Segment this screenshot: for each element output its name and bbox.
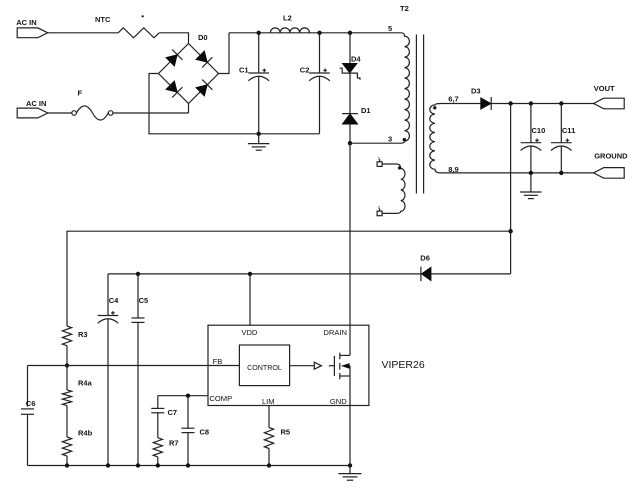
control to gate arrow	[290, 365, 315, 367]
bridge rectifier D0 diamond	[159, 44, 219, 104]
capacitor C1 (bulk, polarized)	[258, 33, 260, 73]
svg-text:D4: D4	[351, 55, 361, 64]
svg-text:D1: D1	[361, 106, 371, 115]
svg-text:3: 3	[388, 134, 392, 143]
TVS diode D4	[342, 63, 357, 73]
junction dot C2 top	[317, 31, 321, 35]
diode D6	[420, 267, 422, 281]
junction dot FB divider node	[65, 363, 69, 367]
AC IN connector (line 2)	[17, 108, 48, 118]
svg-text:R3: R3	[78, 330, 88, 339]
wire clamp branch upper	[349, 33, 351, 64]
svg-text:CONTROL: CONTROL	[247, 364, 282, 372]
capacitor C10 (output, polarized)	[530, 104, 532, 143]
wire LIM pin	[268, 406, 270, 428]
svg-text:R5: R5	[281, 427, 291, 436]
junction dot feedback line	[508, 229, 512, 233]
wire NTC to bridge top vertex	[159, 33, 188, 44]
junction dot C8 top	[186, 394, 190, 398]
junction dot C11 top	[559, 101, 563, 105]
wire source to GND pin	[349, 366, 351, 466]
junction dot GND rail	[348, 463, 352, 467]
svg-text:COMP: COMP	[209, 394, 232, 403]
svg-text:AC IN: AC IN	[16, 18, 36, 27]
VOUT connector	[594, 98, 625, 109]
MOSFET source lead	[340, 375, 350, 377]
junction dot C4 bottom	[106, 463, 110, 467]
capacitor C11 (output, polarized)	[560, 104, 562, 143]
wire drain vertical from clamp to MOSFET	[349, 143, 351, 355]
wire VDD / D6 rail	[108, 273, 511, 275]
capacitor C6	[27, 366, 29, 407]
wire D3 to VOUT	[491, 103, 593, 105]
T2 primary phase dot	[403, 138, 406, 141]
bridge diode bottom-left	[165, 80, 182, 97]
fuse F1	[72, 111, 77, 116]
svg-text:2: 2	[378, 206, 380, 210]
IC U1 VIPER26 box	[208, 325, 369, 405]
wire drain node to transformer pin 3	[350, 142, 401, 144]
svg-text:VOUT: VOUT	[594, 84, 615, 93]
svg-text:R7: R7	[169, 438, 179, 447]
wire AC IN 1 to NTC	[48, 32, 118, 34]
wire C2 bottom to ground node	[259, 133, 320, 135]
svg-text:1: 1	[378, 156, 380, 160]
junction dot primary ground node	[257, 132, 261, 136]
svg-text:L2: L2	[283, 13, 292, 22]
wire feedback vertical from VOUT rail	[510, 104, 512, 274]
wire bottom ground rail	[28, 465, 351, 467]
capacitor C8	[187, 396, 189, 429]
wire between D4 and D1	[349, 73, 351, 114]
capacitor C4 (VDD, polarized)	[107, 274, 109, 316]
wire R3 to FB node	[66, 346, 68, 366]
stray dot above NTC	[142, 15, 144, 17]
svg-text:C11: C11	[562, 126, 575, 135]
svg-text:5: 5	[388, 24, 392, 33]
T2 secondary phase dot	[433, 106, 436, 109]
junction dot drain node	[348, 141, 352, 145]
wire AC IN 2 to fuse	[48, 112, 72, 114]
junction dot VDD pin	[248, 272, 252, 276]
bridge diode bottom-right	[195, 80, 212, 97]
junction dot R7 bottom	[156, 463, 160, 467]
svg-text:C1: C1	[239, 65, 249, 74]
junction dot R4b bottom	[65, 463, 69, 467]
svg-text:D6: D6	[420, 254, 430, 263]
T2 core lines	[415, 35, 417, 194]
wire feedback horizontal to divider	[67, 231, 511, 326]
resistor R7	[153, 438, 162, 457]
svg-text:VDD: VDD	[241, 328, 258, 337]
wire COMP line	[158, 395, 208, 397]
junction dot C10 bottom	[529, 171, 533, 175]
svg-text:D0: D0	[198, 33, 208, 42]
svg-text:GND: GND	[330, 397, 347, 406]
svg-text:FB: FB	[213, 357, 223, 366]
junction dot C10 top	[529, 101, 533, 105]
junction dot C5 top	[136, 272, 140, 276]
svg-text:R4a: R4a	[78, 378, 93, 387]
aux terminal square 1	[377, 162, 382, 167]
svg-text:LIM: LIM	[262, 397, 275, 406]
junction dot C11 bottom	[559, 171, 563, 175]
T2 primary winding pin5-pin3	[401, 33, 410, 143]
svg-text:C6: C6	[26, 399, 36, 408]
wire bridge left vertex to primary ground rail	[149, 74, 259, 134]
CONTROL block	[239, 345, 289, 386]
svg-text:DRAIN: DRAIN	[323, 328, 347, 337]
capacitor C5	[137, 274, 139, 318]
T2 auxiliary winding	[382, 164, 405, 213]
svg-text:NTC: NTC	[95, 15, 111, 24]
MOSFET drain lead	[340, 354, 350, 356]
wire bridge right vertex to top rail	[219, 33, 230, 74]
junction dot clamp branch	[348, 31, 352, 35]
svg-text:R4b: R4b	[78, 428, 93, 437]
MOSFET bulk arrow	[342, 364, 350, 369]
GROUND connector	[594, 168, 625, 179]
svg-text:C7: C7	[168, 408, 178, 417]
wire FB line	[28, 365, 240, 367]
wire bridge bottom vertex stub	[188, 104, 190, 114]
capacitor C2 (polarized)	[319, 33, 321, 73]
resistor R3	[62, 326, 71, 346]
resistor R4b	[62, 437, 71, 456]
gate lead	[329, 365, 335, 367]
svg-text:C2: C2	[300, 65, 310, 74]
svg-text:C8: C8	[200, 427, 210, 436]
primary ground symbol (bottom)	[349, 466, 351, 474]
AC IN connector (line 1)	[17, 28, 48, 38]
MOSFET gate bar	[333, 356, 335, 376]
diode D3 (output rectifier)	[481, 98, 492, 110]
svg-text:6,7: 6,7	[448, 94, 458, 103]
T2 auxiliary phase dot	[398, 166, 401, 169]
wire D1 to drain node	[349, 124, 351, 143]
svg-text:GROUND: GROUND	[594, 152, 628, 161]
primary ground symbol under C1	[258, 134, 260, 144]
bridge diode top-left	[165, 50, 182, 67]
junction dot R5 bottom	[267, 463, 271, 467]
wire VDD pin	[249, 274, 251, 325]
resistor NTC	[118, 28, 159, 38]
junction dot C5 bottom	[136, 463, 140, 467]
diode D1 (clamp blocking)	[342, 113, 358, 115]
inductor L2	[270, 28, 309, 33]
resistor R5	[264, 428, 273, 449]
svg-text:F: F	[78, 89, 83, 98]
wire top rail (DC bus)	[229, 32, 401, 34]
junction dot feedback tap	[508, 101, 512, 105]
wire secondary 6,7 to D3	[441, 103, 481, 105]
MOSFET channel segments	[339, 353, 341, 380]
svg-text:VIPER26: VIPER26	[382, 359, 425, 371]
junction dot C1 top	[257, 31, 261, 35]
secondary ground symbol	[530, 173, 532, 192]
bridge diode top-right	[195, 50, 212, 67]
svg-text:C5: C5	[139, 296, 149, 305]
wire R4a to R4b	[66, 406, 68, 437]
svg-text:AC IN: AC IN	[26, 99, 46, 108]
aux terminal square 2	[377, 211, 382, 216]
wire fuse to bridge bottom vertex	[113, 112, 189, 114]
junction dot C8 bottom	[186, 463, 190, 467]
resistor R4a	[66, 366, 68, 391]
svg-text:C10: C10	[532, 126, 546, 135]
svg-text:D3: D3	[471, 86, 481, 95]
capacitor C7	[157, 396, 159, 409]
svg-text:T2: T2	[400, 4, 409, 13]
wire secondary 8,9 to GROUND connector	[441, 172, 594, 174]
T2 secondary winding pins 6,7 - 8,9	[430, 104, 441, 173]
svg-text:C4: C4	[109, 296, 119, 305]
